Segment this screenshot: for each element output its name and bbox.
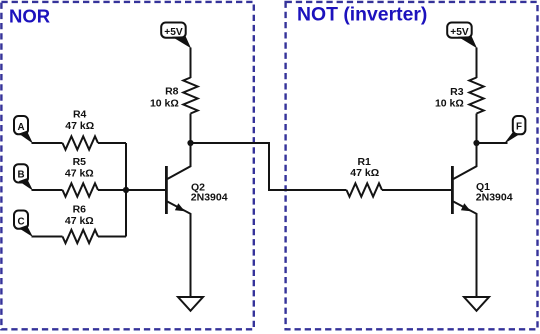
output F flag [504, 116, 525, 144]
wire R6 to input bus [98, 236, 126, 238]
wire R8 to collector node [190, 114, 192, 144]
resistor R1 [347, 183, 383, 196]
svg-text:47 kΩ: 47 kΩ [65, 167, 94, 179]
transistor Q1 [452, 143, 476, 297]
svg-text:47 kΩ: 47 kΩ [65, 215, 94, 227]
svg-text:47 kΩ: 47 kΩ [350, 167, 379, 179]
svg-text:R8: R8 [165, 86, 179, 98]
wire C to R6 [32, 236, 63, 238]
wire R4 to input bus [98, 142, 126, 144]
node: Q2 collector junction [187, 140, 193, 146]
input C flag [14, 211, 33, 238]
input B flag [14, 164, 33, 190]
+5V power flag (NOR) [161, 23, 191, 49]
resistor R8 [183, 78, 197, 114]
resistor R6 [63, 230, 99, 243]
wire junction to Q2 base [126, 189, 166, 191]
node: base junction [123, 187, 129, 193]
wire R3 to collector node [476, 114, 478, 144]
svg-text:NOT (inverter): NOT (inverter) [297, 3, 427, 25]
svg-text:2N3904: 2N3904 [476, 191, 513, 203]
NOR stage dashed border [1, 2, 253, 329]
svg-text:B: B [17, 169, 24, 180]
svg-text:R3: R3 [450, 86, 464, 98]
wire B to R5 [32, 189, 63, 191]
svg-text:R4: R4 [73, 109, 87, 121]
resistor R5 [63, 183, 99, 196]
wire A to R4 [32, 142, 63, 144]
svg-text:C: C [17, 216, 24, 227]
NOT stage dashed border [286, 2, 538, 329]
input A flag [14, 116, 33, 144]
ground (NOT) [464, 297, 489, 311]
wire R1 to Q1 base [382, 189, 452, 191]
svg-text:+5V: +5V [164, 27, 183, 38]
wire NOR output to NOT stage input [191, 143, 347, 190]
wire R5 to base junction [98, 189, 126, 191]
svg-text:F: F [516, 122, 522, 133]
node: Q1 collector junction [473, 140, 479, 146]
resistor R3 [469, 78, 483, 114]
transistor Q2 [166, 143, 190, 297]
svg-text:NOR: NOR [9, 6, 50, 27]
svg-text:10 kΩ: 10 kΩ [150, 97, 179, 109]
svg-text:+5V: +5V [450, 27, 469, 38]
wire node to F flag [477, 142, 508, 144]
svg-text:47 kΩ: 47 kΩ [65, 120, 94, 132]
input bus wire (A/B/C junction) [125, 143, 127, 237]
svg-text:2N3904: 2N3904 [191, 192, 228, 204]
svg-text:A: A [17, 122, 24, 133]
svg-text:10 kΩ: 10 kΩ [435, 98, 464, 110]
svg-text:R6: R6 [73, 204, 87, 216]
resistor R4 [63, 136, 99, 149]
+5V power flag (NOT) [447, 23, 477, 49]
wire +5V to R3 [476, 48, 478, 79]
svg-text:R5: R5 [73, 156, 87, 168]
wire +5V to R8 [190, 48, 192, 79]
ground (NOR) [178, 297, 203, 311]
